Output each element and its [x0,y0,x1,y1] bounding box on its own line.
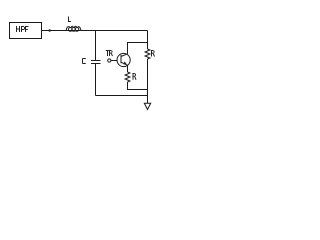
signal arrow [49,29,53,32]
ground arrow [144,103,150,109]
base terminal circle [108,59,111,62]
label HPF letter H [17,26,20,32]
collector resistor zigzag [145,49,150,59]
right vertical rail upper [147,31,149,50]
wire resistor to corner then right [128,82,148,90]
label L [69,17,72,23]
label HPF letter P [22,26,25,32]
emitter resistor zigzag [125,72,130,82]
emitter arrow [123,61,126,64]
label HPF letter F [26,26,29,32]
label C [83,59,86,64]
base bar [120,55,122,63]
HPF block [10,23,42,39]
label TR letter T [106,51,109,57]
collector wire up and over [128,43,148,54]
inductor L humps [66,26,81,30]
transistor TR circle [117,53,130,66]
label R collector [152,50,155,57]
label TR letter R [110,50,113,56]
bottom rail wire [96,95,148,97]
wire HPF output to top rail [41,30,148,32]
base wire [111,60,117,62]
emitter wire down [127,65,129,72]
emitter diagonal [121,62,128,65]
right vertical rail lower [147,59,149,104]
inductor L loops [68,28,72,32]
wire vertical drop to capacitor [95,31,97,61]
label R emitter [133,73,136,80]
wire capacitor to bottom rail [95,64,97,96]
capacitor C plates [91,60,101,62]
collector diagonal [121,54,128,57]
